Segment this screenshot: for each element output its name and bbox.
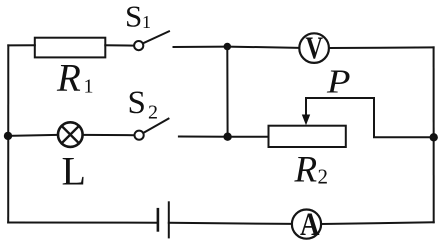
ammeter U2 xyxy=(292,210,321,239)
wiper arrow of R2 xyxy=(302,98,310,125)
switch S1 xyxy=(134,31,169,50)
wire middle vertical A to C xyxy=(226,47,228,137)
wire battery to ammeter xyxy=(169,223,291,224)
svg-text:L: L xyxy=(62,149,86,194)
svg-text:2: 2 xyxy=(318,165,329,189)
wire left junction to lamp xyxy=(8,135,57,136)
wire R1 to S1 xyxy=(105,44,133,46)
svg-text:R: R xyxy=(294,150,318,191)
wire node A to voltmeter xyxy=(227,47,298,48)
wire voltmeter to top-right corner xyxy=(330,46,434,49)
svg-text:2: 2 xyxy=(148,102,158,124)
switch S2 xyxy=(135,119,169,140)
svg-text:P: P xyxy=(326,64,351,101)
resistor R1 xyxy=(35,38,106,58)
svg-text:S: S xyxy=(128,85,146,121)
wire node C to R2 xyxy=(228,136,269,138)
wire top-left horizontal xyxy=(8,44,35,46)
voltmeter U1 xyxy=(299,33,329,63)
wire ammeter to bottom-right corner xyxy=(322,222,434,224)
node C junction dot xyxy=(223,133,231,141)
wire wiper to node B xyxy=(306,98,434,137)
svg-text:V: V xyxy=(306,31,324,66)
wire left vertical xyxy=(7,45,9,222)
wire bottom-left to battery xyxy=(8,222,158,224)
wire right vertical xyxy=(433,47,435,222)
svg-text:S: S xyxy=(125,0,142,34)
wire S2 to node C xyxy=(179,136,228,138)
svg-text:R: R xyxy=(56,57,81,100)
svg-text:1: 1 xyxy=(142,12,151,32)
node D junction dot xyxy=(4,132,12,140)
wire lamp to S2 xyxy=(83,134,134,136)
battery BT1 xyxy=(158,202,169,237)
svg-text:1: 1 xyxy=(84,76,94,98)
node B junction dot xyxy=(430,133,438,141)
node A junction dot xyxy=(224,43,232,51)
svg-text:A: A xyxy=(300,207,320,243)
lamp L xyxy=(58,122,83,147)
wire S1 to node A xyxy=(174,46,228,48)
rheostat R2 xyxy=(269,126,346,147)
